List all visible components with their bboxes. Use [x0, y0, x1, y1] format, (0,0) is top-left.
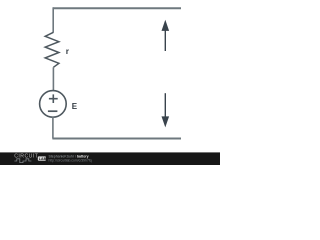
voltage source plus sign [49, 94, 58, 103]
resistor r [45, 32, 59, 67]
footer logo LAB badge [38, 156, 46, 160]
wire resistor to source [52, 67, 54, 91]
wire source to bottom corner [52, 117, 54, 139]
svg-text:E: E [72, 102, 78, 111]
svg-text:LAB: LAB [39, 157, 47, 161]
voltage source E circle [40, 91, 67, 118]
svg-text:r: r [66, 46, 70, 56]
current arrow down (head) [162, 116, 170, 127]
current arrow down (shaft) [164, 93, 166, 117]
wire top horizontal [53, 7, 181, 9]
svg-text:http://circuitlab.com/c/39h7fq: http://circuitlab.com/c/39h7fq [49, 159, 92, 163]
footer bar [0, 152, 220, 165]
current arrow up (head) [162, 20, 170, 31]
voltage source minus sign [48, 110, 58, 112]
footer logo squarewave [14, 159, 31, 163]
wire bottom horizontal [52, 138, 181, 140]
wire left vertical upper (top corner to resistor) [52, 7, 54, 32]
current arrow up (shaft) [164, 31, 166, 52]
